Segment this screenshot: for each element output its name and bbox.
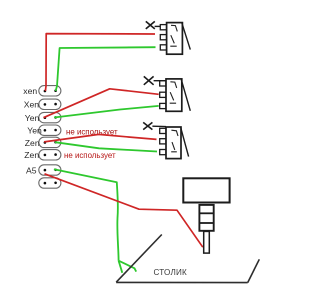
green fork prong left <box>119 261 123 273</box>
wire red J1 to SW1 <box>45 34 155 91</box>
svg-text:не использует: не использует <box>64 151 116 160</box>
svg-text:А5: А5 <box>26 165 37 175</box>
connector J1 (xen) <box>39 86 61 96</box>
switch SW3 <box>143 122 188 158</box>
table right diagonal <box>248 259 260 282</box>
svg-text:Yen: Yen <box>27 125 42 135</box>
wire red J3 to SW2 <box>43 89 158 118</box>
wire green J1 to SW1 <box>56 47 156 91</box>
svg-text:Xen: Xen <box>24 100 40 110</box>
connector J4 (Yen, not used) <box>39 125 61 135</box>
wire red J7 to stylus <box>45 174 203 247</box>
connector J5 (Zen) <box>39 137 61 147</box>
wire green J3 to SW2 <box>54 106 159 118</box>
connector J6 (Zen, not used) <box>39 150 61 160</box>
wire green J5 to SW3 <box>55 142 157 151</box>
connector J8 (unlabeled) <box>39 178 61 188</box>
wire red J5 to SW3 <box>44 134 156 142</box>
svg-text:xen: xen <box>23 86 37 96</box>
svg-text:Yen: Yen <box>25 113 40 123</box>
svg-text:Zen: Zen <box>25 138 40 148</box>
table edge left diagonal <box>116 235 162 283</box>
svg-text:Zen: Zen <box>24 150 39 160</box>
table bottom line <box>116 281 248 283</box>
green fork prong right <box>119 261 137 272</box>
stylus <box>204 231 210 253</box>
connector J2 (Xen) <box>39 99 61 109</box>
switch SW1 <box>146 21 191 54</box>
stand segment stack <box>199 205 213 231</box>
monitor box <box>183 178 229 202</box>
wire green J7 down to table <box>54 169 119 261</box>
svg-text:СТОЛИК: СТОЛИК <box>154 268 187 277</box>
switch SW2 <box>144 76 191 111</box>
connector J3 (Yen) <box>39 112 61 122</box>
connector J7 (A5) <box>39 165 61 175</box>
